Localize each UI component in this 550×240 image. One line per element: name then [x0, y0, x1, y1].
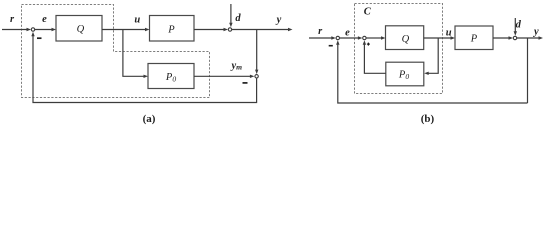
svg-text:r: r [10, 14, 15, 25]
svg-text:(a): (a) [143, 113, 156, 125]
minus sign at sum1 (a) [37, 37, 42, 39]
wire feedback (b) [338, 44, 528, 103]
arrowhead d into d-sum (b) [514, 31, 517, 36]
minus sign at sum1 (b) [329, 45, 333, 47]
arrowhead branch into P0 (a) [144, 75, 149, 78]
wire sum1 to sum2 (b) [340, 37, 359, 39]
wire P to d-sum (a) [194, 29, 225, 31]
svg-text:r: r [318, 26, 323, 37]
svg-text:u: u [134, 15, 140, 26]
wire d disturbance (b) [514, 18, 516, 32]
svg-text:y: y [532, 27, 539, 38]
wire output y (a) [232, 29, 289, 31]
block P (a) [150, 16, 195, 42]
sum junction 2 ym (a) [255, 75, 258, 78]
sum junction d (a) [228, 28, 231, 31]
wire y branch down to sum2 (a) [256, 30, 258, 71]
arrowhead u into P (a) [145, 28, 150, 31]
arrowhead r into sum1 (b) [331, 36, 336, 39]
arrowhead ym into sum2 (a) [250, 75, 255, 78]
svg-text:P0: P0 [165, 72, 176, 84]
arrowhead e into Q (b) [381, 36, 386, 39]
svg-text:Q: Q [77, 24, 85, 35]
wire Q to P (a) [102, 29, 146, 31]
arrowhead branch into P0 right side (b) [424, 72, 429, 75]
arrowhead y branch into sum2 (a) [255, 70, 258, 75]
svg-text:P: P [470, 33, 478, 44]
svg-text:ym: ym [230, 61, 243, 72]
svg-text:Q: Q [402, 34, 410, 45]
arrowhead model fb up into sum2 (b) [363, 40, 366, 45]
arrowhead P out into d-sum (b) [509, 36, 514, 39]
plus sign at sum2 (b) horizontal [367, 43, 370, 45]
arrowhead u into P (b) [451, 36, 456, 39]
arrowhead into sum2 (b) [358, 36, 363, 39]
svg-text:P0: P0 [398, 70, 409, 82]
svg-text:e: e [42, 14, 47, 25]
svg-text:e: e [345, 28, 350, 39]
wire r input (a) [2, 29, 28, 31]
block Q (b) [386, 26, 424, 50]
wire r input (b) [309, 37, 333, 39]
arrowhead e into Q (a) [52, 28, 57, 31]
wire Q to P (b) [424, 37, 452, 39]
wire P to d-sum (b) [493, 37, 509, 39]
wire u branch down to P0 (a) [123, 30, 145, 77]
svg-text:u: u [446, 28, 452, 39]
block P0 (b) [386, 62, 424, 86]
arrowhead r into sum1 (a) [27, 28, 32, 31]
svg-text:d: d [516, 20, 522, 31]
wire P0 to sum2 (a) [194, 75, 251, 77]
wire e: sum1 to Q (a) [35, 29, 52, 31]
dashed controller box (a) [22, 5, 210, 98]
svg-text:P: P [167, 24, 175, 35]
block P0 (a) [148, 64, 194, 89]
wire u branch down to P0 (b) [428, 38, 438, 73]
wire P0 output to sum2 (b) [364, 44, 385, 73]
svg-text:y: y [275, 15, 282, 26]
arrowhead y output tip (b) [539, 36, 544, 39]
svg-text:C: C [364, 7, 372, 18]
block P (b) [455, 26, 493, 50]
dashed controller box C (b) [355, 4, 443, 94]
sum junction 2 (b) [363, 36, 366, 39]
wire d disturbance (a) [230, 4, 232, 24]
block Q (a) [56, 16, 102, 42]
wire y branch down (b) [527, 38, 529, 103]
svg-text:d: d [235, 13, 241, 24]
wire feedback (a) [33, 35, 257, 102]
arrowhead y output tip (a) [288, 28, 293, 31]
svg-text:(b): (b) [421, 113, 435, 125]
plus sign at sum2 (b) vertical [367, 43, 369, 46]
wire e: sum2 to Q (b) [366, 37, 381, 39]
sum junction 1 (a) [31, 28, 34, 31]
wire output y (b) [517, 37, 540, 39]
minus sign at sum2 (a) [243, 82, 248, 84]
arrowhead feedback up into sum1 (b) [336, 40, 339, 45]
arrowhead d into d-sum (a) [229, 23, 232, 28]
sum junction d (b) [513, 36, 516, 39]
arrowhead P out into d-sum (a) [224, 28, 229, 31]
sum junction 1 (b) [336, 36, 339, 39]
arrowhead feedback up into sum1 (a) [31, 32, 34, 37]
